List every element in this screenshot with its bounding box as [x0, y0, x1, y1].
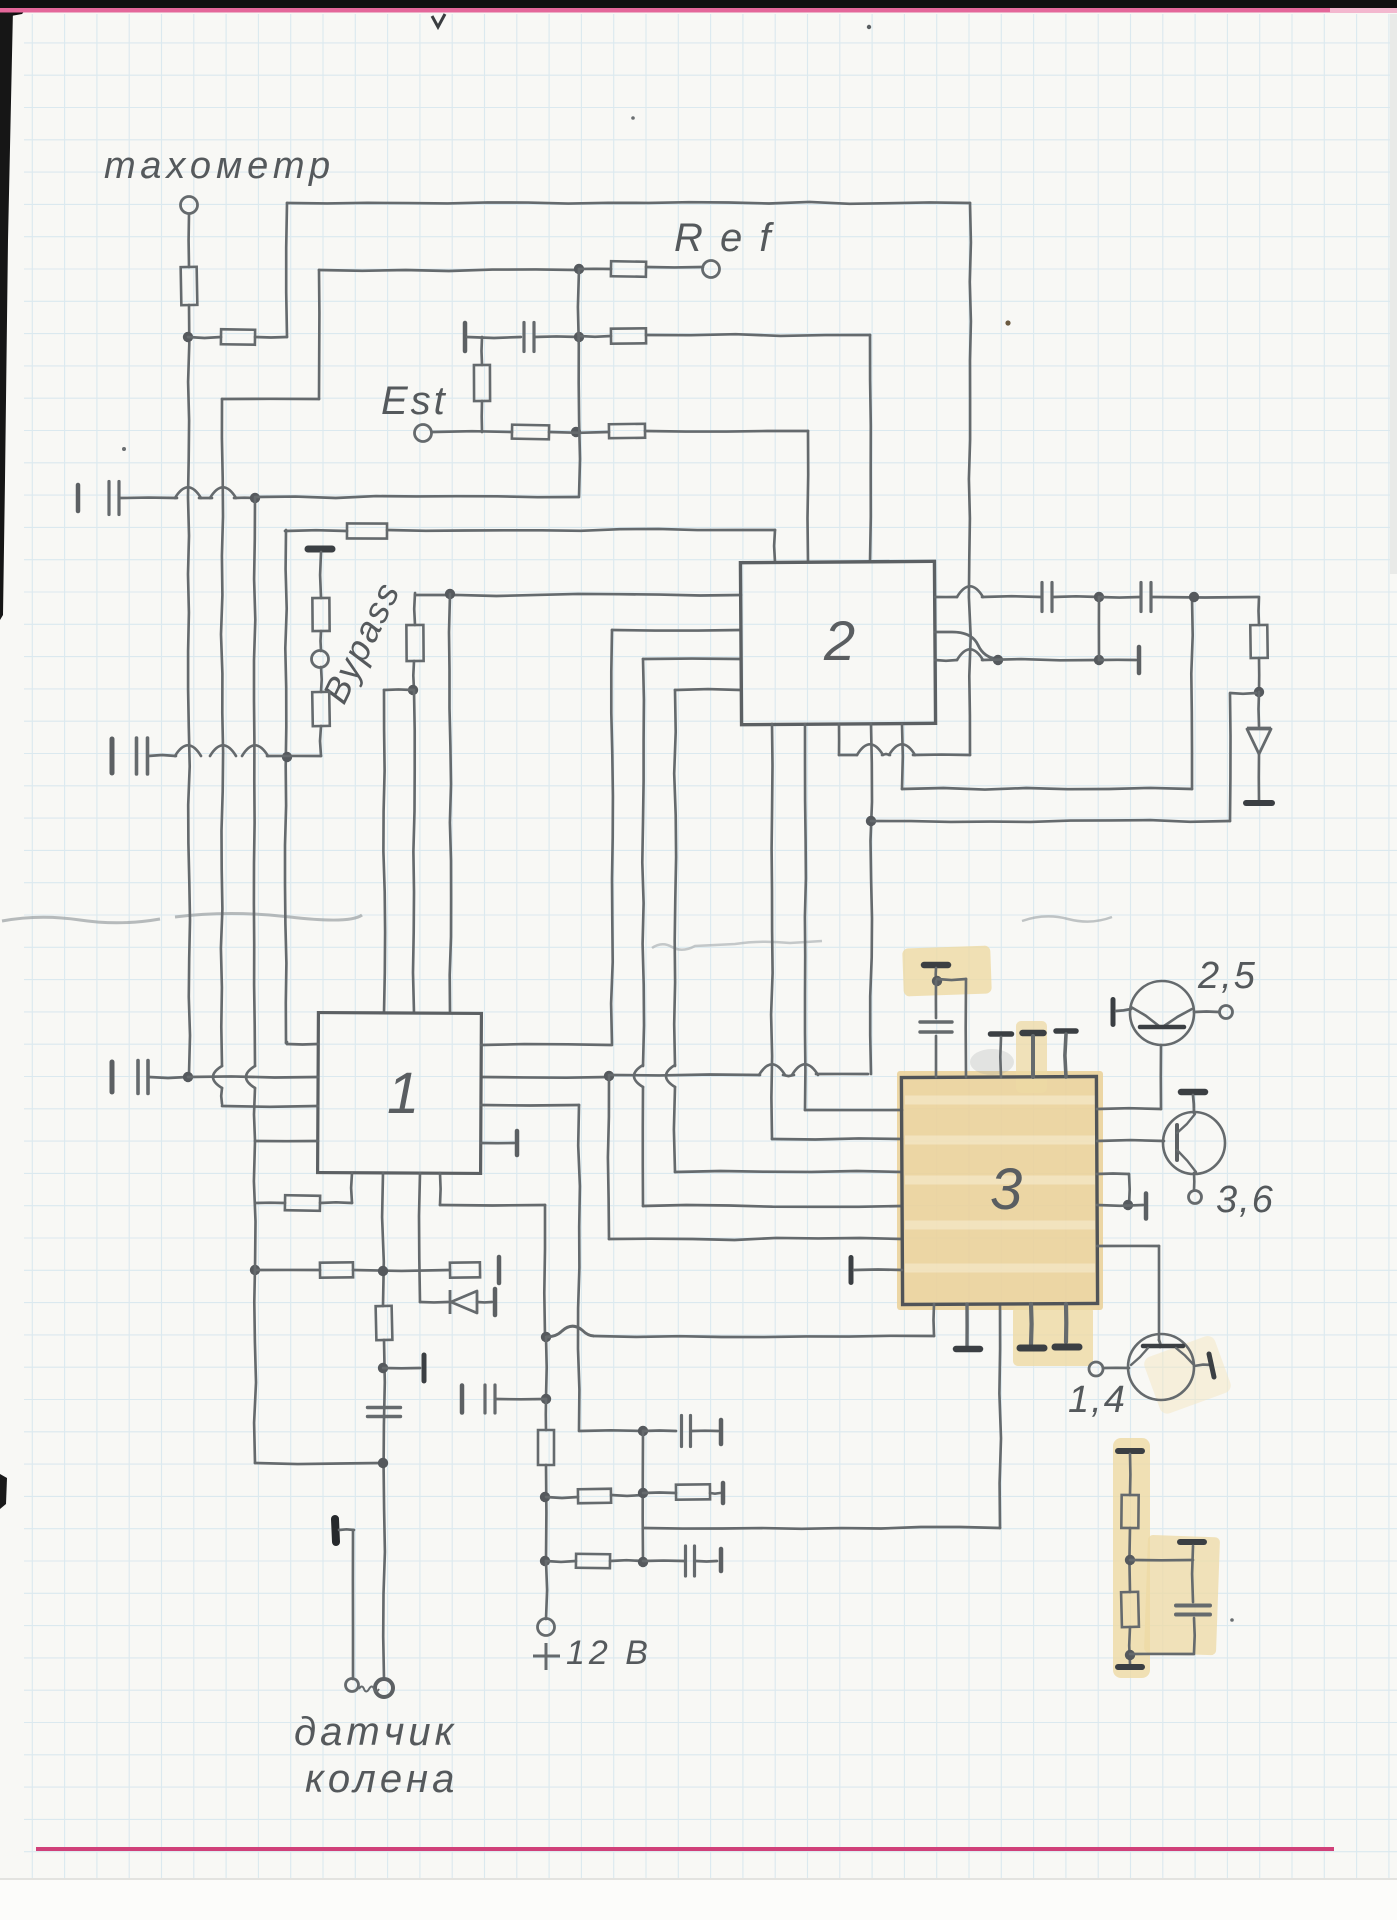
- resistor R3: [611, 261, 646, 277]
- speck: [1005, 320, 1010, 325]
- ground bar: [1118, 1448, 1142, 1454]
- wire: [692, 1429, 718, 1432]
- wire: [149, 1077, 187, 1078]
- wire: [645, 430, 808, 433]
- resistor R16: [538, 1430, 554, 1465]
- junction: [1094, 655, 1104, 665]
- wire: [771, 724, 773, 1139]
- label 1_4: [1068, 1379, 1127, 1421]
- eraser smudge right: [1022, 916, 1112, 921]
- junction: [540, 1556, 550, 1566]
- terminator bar: [515, 1131, 520, 1155]
- wire hop: [175, 745, 201, 756]
- wire: [901, 724, 904, 789]
- wire: [412, 661, 415, 690]
- ground bar: [1056, 1028, 1076, 1034]
- wire: [611, 630, 613, 1045]
- highlight patch below IC3: [1013, 1306, 1093, 1366]
- wire: [1230, 692, 1256, 695]
- wire: [1159, 1045, 1162, 1109]
- wire: [188, 305, 190, 1074]
- pencil tick top: [432, 14, 445, 27]
- terminator bar: [1144, 1194, 1149, 1219]
- wire: [675, 1171, 902, 1172]
- label Ref: [674, 216, 774, 260]
- wire: [816, 1073, 868, 1076]
- wire: [439, 1173, 442, 1205]
- wire: [932, 1304, 935, 1336]
- svg-text:тахометр: тахометр: [104, 145, 335, 187]
- wire box2 pin: [806, 431, 809, 562]
- wire: [188, 337, 221, 338]
- wire: [383, 1367, 420, 1370]
- wire: [913, 753, 970, 756]
- terminator bar: [497, 1257, 502, 1283]
- capacitor C5: [1141, 583, 1151, 612]
- terminal bypass: [312, 651, 329, 668]
- wire: [481, 1076, 609, 1079]
- wire: [805, 1109, 902, 1112]
- wire: [935, 596, 957, 599]
- wire: [1098, 597, 1101, 660]
- wire: [772, 1138, 902, 1139]
- wire: [611, 1494, 643, 1498]
- wire: [222, 1105, 318, 1108]
- wire: [783, 1075, 794, 1076]
- junction: [866, 816, 876, 826]
- wire: [546, 1560, 576, 1564]
- wire S-bend: [935, 632, 998, 659]
- wire: [935, 659, 957, 662]
- wire: [579, 1429, 643, 1432]
- wire: [1104, 1366, 1129, 1369]
- wire: [318, 270, 321, 399]
- wire hop: [210, 487, 236, 498]
- wire: [1097, 1172, 1129, 1175]
- wire: [608, 1076, 609, 1239]
- highlight over IC3: [897, 1071, 1103, 1310]
- label crank sensor2: [305, 1757, 458, 1801]
- wire hop: [634, 1065, 643, 1087]
- wire: [545, 1465, 548, 1561]
- wire: [937, 979, 966, 980]
- label Est: [381, 379, 448, 423]
- ground bar: [1055, 1344, 1079, 1351]
- wire: [674, 690, 676, 1066]
- wire: [1194, 1365, 1212, 1366]
- wire: [320, 667, 323, 692]
- transistor Q1: [1113, 981, 1194, 1045]
- terminal Ref: [703, 261, 720, 278]
- wire: [609, 1073, 760, 1077]
- wire: [1065, 1034, 1066, 1077]
- highlight strip over IC3 top pin: [1016, 1021, 1047, 1093]
- svg-text:3: 3: [990, 1157, 1022, 1222]
- capacitor C11: [920, 1022, 952, 1032]
- wire: [1031, 1036, 1035, 1077]
- terminator bar: [1137, 647, 1142, 673]
- wire: [1152, 596, 1258, 599]
- capacitor C3: [137, 738, 148, 774]
- wire: [643, 1559, 684, 1562]
- label 3_6: [1216, 1179, 1275, 1221]
- plus sign: [533, 1643, 560, 1670]
- terminator bar: [110, 739, 115, 773]
- ground bar: [1020, 1345, 1044, 1352]
- label 2_5: [1197, 955, 1257, 997]
- wire: [1257, 597, 1260, 625]
- wire hop: [759, 1064, 785, 1075]
- capacitor C4: [1042, 583, 1052, 612]
- wire: [319, 631, 322, 651]
- wire: [254, 1088, 255, 1141]
- wire: [234, 496, 255, 499]
- ground stub: [1064, 1304, 1069, 1342]
- wire: [1053, 595, 1099, 598]
- wire: [222, 397, 319, 400]
- wire: [384, 688, 413, 691]
- wire: [934, 968, 937, 981]
- wire: [496, 1398, 546, 1401]
- wire: [432, 430, 512, 433]
- wire: [935, 981, 938, 1018]
- svg-text:Est: Est: [381, 379, 448, 423]
- ground bar: [924, 962, 948, 969]
- wire: [546, 1497, 578, 1498]
- wire hop: [213, 1066, 222, 1088]
- ground bar: [1180, 1539, 1204, 1545]
- wire: [255, 1201, 285, 1204]
- ground bar: [991, 1031, 1012, 1037]
- wire: [969, 203, 971, 755]
- wire: [674, 1087, 675, 1172]
- wire: [1130, 1653, 1194, 1656]
- resistor R1: [181, 267, 198, 305]
- wire: [352, 1530, 355, 1679]
- wire: [594, 1336, 934, 1337]
- terminal sensor2: [346, 1679, 359, 1692]
- terminator bar: [110, 1062, 115, 1092]
- terminal sensor: [375, 1679, 393, 1697]
- wire: [999, 1037, 1002, 1077]
- wire: [578, 1105, 580, 1430]
- resistor R5: [474, 365, 490, 401]
- ground bar: [956, 1346, 980, 1353]
- junction: [250, 1265, 260, 1275]
- wire: [420, 1301, 448, 1304]
- wire hop: [175, 487, 201, 498]
- wire: [188, 1076, 318, 1077]
- wire: [675, 688, 741, 692]
- highlight strip RC network: [1113, 1438, 1150, 1678]
- wire: [413, 593, 416, 625]
- wire: [1193, 1618, 1196, 1653]
- wire: [254, 498, 255, 1066]
- resistor R19: [576, 1554, 610, 1568]
- resistor R15: [450, 1262, 480, 1277]
- wire: [982, 659, 1099, 660]
- junction: [1094, 592, 1104, 602]
- wire hop: [666, 1065, 675, 1087]
- resistor R13: [285, 1195, 320, 1211]
- wire: [319, 552, 323, 598]
- wire: [1099, 658, 1136, 661]
- highlight patch above IC3: [902, 945, 992, 996]
- wire: [480, 337, 483, 365]
- wire: [199, 497, 212, 500]
- capacitor C1: [524, 323, 534, 352]
- wire: [254, 1141, 256, 1463]
- terminal 12V: [538, 1619, 555, 1636]
- wire: [287, 1043, 318, 1046]
- wire: [545, 1337, 548, 1398]
- terminal 1_4: [1089, 1362, 1103, 1376]
- wire hop: [210, 745, 236, 756]
- resistor R8: [347, 523, 387, 538]
- wire: [1097, 1139, 1164, 1143]
- ground bar: [1246, 800, 1272, 806]
- resistor R12: [1250, 625, 1267, 658]
- wire hop: [242, 745, 268, 756]
- terminator bar: [719, 1549, 724, 1571]
- wire: [854, 1268, 902, 1271]
- wire hop: [957, 649, 983, 660]
- wire: [255, 1269, 320, 1272]
- junction: [574, 332, 584, 342]
- label tachometer: [104, 145, 335, 187]
- wire: [546, 1561, 547, 1619]
- wire: [477, 1301, 492, 1304]
- speck: [631, 116, 635, 120]
- wire: [221, 399, 223, 1066]
- ground bar: [1023, 1030, 1044, 1037]
- junction: [378, 1266, 388, 1276]
- junction: [932, 976, 942, 986]
- wire: [643, 1429, 676, 1432]
- terminator bar: [76, 485, 81, 511]
- wire: [267, 755, 321, 758]
- junction: [378, 1458, 388, 1468]
- eraser smudge: [2, 914, 362, 923]
- junction: [1254, 687, 1264, 697]
- svg-text:12 В: 12 В: [566, 1634, 652, 1672]
- wire: [255, 496, 578, 498]
- speck: [1230, 1618, 1234, 1622]
- label 1: [387, 1061, 419, 1126]
- wire box1 pin: [413, 690, 415, 1013]
- transistor Q2: [1163, 1092, 1225, 1174]
- wire: [255, 1463, 383, 1464]
- wire: [440, 1204, 545, 1207]
- wire: [285, 203, 288, 337]
- wire: [320, 1201, 352, 1204]
- wire: [871, 820, 1230, 822]
- junction: [1189, 592, 1199, 602]
- terminator bar: [463, 323, 468, 351]
- svg-text:2: 2: [823, 609, 855, 672]
- wire: [120, 496, 177, 499]
- ground bar: [1118, 1664, 1142, 1670]
- junction: [604, 1071, 614, 1081]
- wire: [339, 1528, 354, 1531]
- wire: [1097, 1245, 1159, 1248]
- wire: [285, 529, 347, 532]
- wire: [870, 724, 872, 1074]
- highlight smear RC network: [1142, 1334, 1233, 1416]
- wire hop: [957, 586, 983, 597]
- wire: [481, 1104, 579, 1107]
- wire: [646, 334, 870, 336]
- terminal tachometer: [181, 197, 198, 214]
- junction: [250, 493, 260, 503]
- wire box1 pin: [449, 594, 451, 1013]
- wire: [353, 1269, 450, 1273]
- terminal 2_5: [1220, 1006, 1233, 1019]
- wire: [982, 595, 1041, 598]
- wire: [643, 1491, 676, 1494]
- svg-text:датчик: датчик: [294, 1710, 458, 1754]
- squiggle: [359, 1687, 379, 1692]
- junction: [183, 1072, 193, 1082]
- wire hop: [792, 1064, 818, 1075]
- wire: [696, 1560, 717, 1563]
- wire: [419, 1173, 420, 1302]
- svg-text:R e f: R e f: [674, 216, 774, 260]
- wire: [646, 266, 703, 269]
- wire: [320, 726, 321, 756]
- capacitor C10: [686, 1546, 695, 1576]
- pencil squiggle: [652, 941, 822, 950]
- wire: [1257, 692, 1260, 726]
- capacitor C7: [368, 1408, 401, 1417]
- svg-text:2,5: 2,5: [1197, 955, 1257, 997]
- capacitor C2: [109, 482, 119, 515]
- wire: [838, 724, 841, 755]
- terminator bar: [721, 1483, 726, 1503]
- resistor R21: [1121, 1592, 1139, 1627]
- wire: [612, 629, 741, 632]
- wire: [543, 1205, 546, 1337]
- wire: [1229, 694, 1232, 821]
- junction: [993, 655, 1003, 665]
- wire: [383, 1340, 385, 1679]
- resistor R9: [312, 598, 329, 631]
- wire hop: [246, 1066, 255, 1088]
- junction: [574, 264, 584, 274]
- IC U3: [901, 1076, 1097, 1304]
- ground stub: [965, 1304, 968, 1347]
- wire: [1194, 1010, 1219, 1013]
- resistor R17: [578, 1489, 611, 1504]
- wire: [882, 754, 890, 755]
- svg-text:1: 1: [387, 1061, 419, 1126]
- ground bar: [308, 546, 332, 553]
- wire: [534, 335, 579, 338]
- terminator bar: [460, 1386, 465, 1413]
- junction: [408, 685, 418, 695]
- wire: [1097, 1107, 1161, 1110]
- resistor R4: [611, 328, 646, 343]
- wire: [999, 1304, 1001, 1528]
- wire: [609, 1238, 902, 1240]
- wire: [481, 1142, 514, 1145]
- junction: [638, 1557, 648, 1567]
- wire: [710, 1492, 720, 1495]
- diode D1: [1247, 728, 1271, 754]
- wire box2 pin: [869, 335, 872, 562]
- wire: [285, 1042, 289, 1044]
- wire: [148, 755, 176, 756]
- terminal Est: [415, 425, 432, 442]
- wire hop: [857, 744, 883, 755]
- resistor R10: [312, 692, 330, 726]
- wire: [643, 657, 741, 660]
- wire: [1097, 1204, 1143, 1207]
- IC U1: [318, 1013, 482, 1174]
- wire: [643, 1527, 1000, 1529]
- wire: [1193, 1173, 1196, 1190]
- diode D2: [450, 1290, 477, 1314]
- junction: [183, 332, 193, 342]
- ground pin: [849, 1258, 854, 1283]
- wire: [1191, 1546, 1195, 1602]
- smudge above IC3: [970, 1049, 1014, 1075]
- wire: [480, 401, 483, 432]
- wire: [255, 336, 287, 339]
- resistor R22: [376, 1306, 393, 1340]
- ground stub: [1029, 1304, 1034, 1344]
- terminator bar: [493, 1289, 498, 1315]
- wire: [1257, 754, 1260, 801]
- svg-text:колена: колена: [305, 1757, 458, 1801]
- wire: [642, 659, 644, 1066]
- terminator bar: [422, 1355, 427, 1381]
- wire S-hop: [546, 1326, 594, 1337]
- junction: [1125, 1555, 1135, 1565]
- wire: [350, 1173, 354, 1203]
- wire: [1129, 1454, 1132, 1495]
- svg-text:1,4: 1,4: [1068, 1379, 1127, 1421]
- wire box2 pin: [773, 530, 777, 562]
- wire: [187, 214, 190, 267]
- node corner: [287, 202, 970, 204]
- wire box1 pin: [383, 690, 385, 1013]
- wire: [467, 337, 521, 338]
- wire: [319, 269, 579, 271]
- resistor R11: [406, 625, 423, 661]
- junction: [638, 1426, 648, 1436]
- wire hop: [889, 744, 915, 755]
- wire: [805, 724, 806, 1110]
- highlight block RC network: [1144, 1535, 1220, 1655]
- resistor R2: [221, 329, 255, 345]
- terminator bar: [719, 1420, 724, 1444]
- terminal 3_6: [1189, 1191, 1202, 1204]
- speck: [122, 447, 126, 451]
- wire: [579, 267, 611, 270]
- junction: [541, 1394, 551, 1404]
- junction: [571, 427, 581, 437]
- junction: [1123, 1200, 1133, 1210]
- wire: [578, 269, 580, 497]
- junction: [445, 589, 455, 599]
- capacitor C6: [138, 1061, 148, 1094]
- wire: [935, 1036, 938, 1077]
- resistor R14: [320, 1262, 353, 1277]
- wire: [255, 1140, 318, 1143]
- junction: [1125, 1650, 1135, 1660]
- resistor R6: [512, 425, 549, 440]
